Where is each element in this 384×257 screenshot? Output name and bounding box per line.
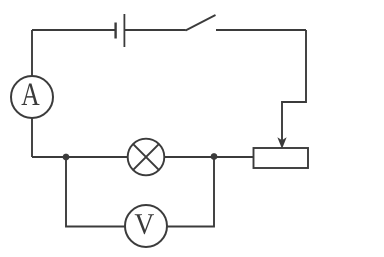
wire voltmeter branch right [167, 157, 214, 227]
wire bottom main left [32, 156, 128, 158]
wire left vertical upper [31, 30, 33, 76]
ammeter A [11, 76, 53, 118]
node A junction dot [63, 154, 70, 161]
wire lamp to node B [164, 156, 214, 158]
label A [22, 84, 40, 105]
battery cell [116, 14, 125, 47]
lamp [128, 139, 165, 176]
wire left vertical lower [31, 118, 33, 157]
arrowhead wiper [278, 139, 285, 148]
node B junction dot [211, 153, 218, 160]
wire top-left horizontal [32, 29, 116, 31]
rheostat R [254, 148, 309, 168]
wire switch to top-right corner [216, 29, 306, 31]
wire node B to rheostat [214, 156, 254, 158]
wire voltmeter branch left [66, 157, 125, 227]
voltmeter V [125, 205, 167, 247]
wire battery to switch [124, 29, 185, 31]
label V [135, 214, 154, 234]
switch (open) [186, 15, 216, 31]
wire right vertical [282, 30, 306, 140]
